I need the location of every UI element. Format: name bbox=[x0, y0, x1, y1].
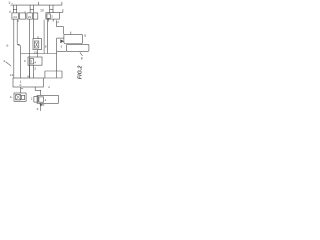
transducer T1 box A bbox=[12, 13, 19, 19]
wire: transducer T2 stub left bbox=[29, 5, 31, 13]
wire: horizontal bus mid bbox=[21, 53, 57, 55]
junction blob bbox=[40, 104, 43, 106]
block B4 detector bbox=[33, 39, 42, 50]
svg-text:10: 10 bbox=[40, 8, 44, 12]
wire: B5 bottom stub 2 bbox=[33, 65, 35, 78]
wire: bus end up-hook bbox=[61, 2, 63, 5]
block B6 main bbox=[13, 78, 43, 87]
wire: bottom bus right of B6 bbox=[43, 77, 62, 79]
wire: loop left drop bbox=[44, 71, 46, 78]
wire: transducer T1 stub right bbox=[16, 5, 18, 13]
wire: B6 to B7 bbox=[20, 87, 22, 93]
inner box of B4 bbox=[35, 41, 39, 48]
wire: transducer T2 stub right bbox=[33, 5, 35, 13]
inner box of B8 bbox=[39, 97, 44, 102]
transducer T2 box B bbox=[33, 13, 38, 19]
block B7 alarm bbox=[14, 93, 26, 101]
wire: below B8 bbox=[40, 103, 42, 111]
svg-text:9: 9 bbox=[84, 34, 86, 38]
wire: vertical right riser bbox=[56, 38, 58, 78]
oscillator box U2 bbox=[66, 44, 89, 51]
circuit schematic, patent figure FIG.2 bbox=[0, 0, 93, 120]
transducer T2 box A bbox=[27, 13, 33, 19]
node blob joint bbox=[17, 43, 20, 46]
wire: T2 crossbar bbox=[30, 9, 33, 11]
transducer T3 box bbox=[46, 13, 60, 19]
wire: input to oscillator 2 bbox=[57, 50, 67, 52]
svg-text:1·–: 1·– bbox=[8, 1, 13, 5]
svg-text:9: 9 bbox=[37, 107, 39, 111]
svg-text:8: 8 bbox=[45, 44, 47, 48]
svg-text:8: 8 bbox=[81, 57, 83, 61]
wire: T3 bottom stub 2 bbox=[52, 19, 54, 22]
label 4 with leader bbox=[6, 62, 12, 67]
svg-text:15: 15 bbox=[34, 50, 38, 54]
svg-text:4: 4 bbox=[9, 10, 11, 14]
wire: T2 right down to B4 bbox=[33, 19, 35, 38]
block B8 bbox=[37, 95, 58, 103]
svg-text:4: 4 bbox=[3, 59, 5, 63]
wire: transducer T3 stub right bbox=[52, 5, 54, 13]
transducer T1 box B bbox=[19, 13, 25, 19]
attached square left of B8 bbox=[34, 96, 38, 102]
oscillator box U1 bbox=[64, 34, 83, 43]
block B5 bbox=[28, 57, 42, 65]
wire: from T1 right, partial bbox=[16, 19, 18, 44]
wire: input to oscillator 1 bbox=[57, 37, 64, 39]
wire: jog from T3 into oscillator box bbox=[57, 20, 64, 34]
wire: loop right drop bbox=[61, 71, 63, 78]
wire: top supply bus bbox=[11, 4, 62, 6]
svg-text:21: 21 bbox=[28, 15, 32, 19]
tick on B6-B7 wire bbox=[21, 88, 24, 90]
svg-text:FIG.2: FIG.2 bbox=[77, 66, 83, 80]
inner X square of B7 bbox=[16, 95, 21, 100]
wire: lower loop horizontal bbox=[45, 70, 62, 72]
wire: long vertical pair from T3 bbox=[43, 20, 45, 54]
wire: T1 crossbar bbox=[13, 9, 16, 11]
inner box of B5 bbox=[30, 59, 34, 64]
wire: long vertical from T1 left bbox=[13, 19, 15, 78]
tick above B4 bbox=[37, 36, 39, 38]
wire: transducer T1 stub left bbox=[12, 5, 14, 13]
inner plate of T3 bbox=[47, 14, 50, 18]
svg-text:24: 24 bbox=[13, 15, 17, 19]
wire: T3 bottom stub 1 bbox=[48, 19, 50, 22]
glyph inside B4 bbox=[35, 42, 37, 47]
wire: B4 bottom stub bbox=[36, 50, 38, 54]
svg-text:3: 3 bbox=[34, 67, 36, 71]
wire: B5 bottom stub 1 bbox=[29, 65, 31, 78]
arrow into oscillator bbox=[60, 39, 64, 43]
wire: T3 crossbar bbox=[50, 9, 53, 11]
svg-text:12: 12 bbox=[10, 73, 14, 77]
wire: T3 right stub to hook bbox=[59, 9, 63, 12]
tick above U1 bbox=[70, 32, 72, 35]
wire: long vertical from T2 left bbox=[29, 19, 31, 78]
wire: transducer T3 stub left bbox=[49, 5, 51, 13]
dot right bbox=[43, 104, 44, 106]
svg-text:o: o bbox=[20, 83, 22, 87]
label 18 leader below U2 bbox=[80, 52, 83, 56]
inner square of B7 bbox=[22, 95, 25, 99]
wire: B6 bottom jog to B8 bbox=[35, 87, 41, 95]
svg-text:4-: 4- bbox=[10, 95, 13, 99]
node: tick on bus bbox=[38, 2, 40, 5]
svg-text:2: 2 bbox=[57, 20, 59, 24]
wire: vertical to bus bbox=[20, 45, 22, 78]
svg-text:6-: 6- bbox=[6, 44, 9, 48]
